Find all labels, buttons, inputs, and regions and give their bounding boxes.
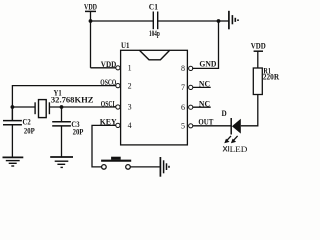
wire VDD to R1 <box>257 51 259 68</box>
LED D <box>222 108 241 135</box>
pin 6 circle <box>189 105 193 109</box>
svg-text:3: 3 <box>128 103 132 112</box>
svg-text:2: 2 <box>128 81 132 90</box>
power VDD right <box>251 40 266 51</box>
svg-text:OUT: OUT <box>198 117 213 127</box>
svg-text:20P: 20P <box>73 127 84 137</box>
LED emission arrow 2 <box>231 136 238 143</box>
LED caption glyph (CJK) <box>223 146 229 152</box>
svg-text:5: 5 <box>181 122 185 131</box>
wire pin6 NC stub <box>193 106 211 108</box>
wire pin7 NC stub <box>193 86 211 88</box>
pin 4 circle <box>116 123 120 127</box>
capacitor C3 20P <box>52 107 84 157</box>
svg-text:D: D <box>222 108 227 118</box>
pin 7 circle <box>189 85 193 89</box>
svg-text:VDD: VDD <box>84 1 97 11</box>
power VDD top-left <box>84 1 97 11</box>
wire stub to top ground <box>219 20 229 22</box>
pin 5 circle <box>189 124 193 128</box>
wire pin1 feed <box>91 67 116 69</box>
wire to crystal left <box>12 106 35 108</box>
wire pin5 OUT to LED <box>193 125 231 127</box>
node junction at top-right <box>217 19 221 23</box>
svg-text:GND: GND <box>199 59 216 69</box>
capacitor C1 104p <box>149 1 160 38</box>
pin 2 circle <box>116 84 120 88</box>
pin 8 circle <box>189 66 193 70</box>
svg-text:220R: 220R <box>263 72 280 82</box>
svg-text:VDD: VDD <box>251 40 266 50</box>
wire pin4 KEY down to button <box>92 125 116 166</box>
pushbutton KEY switch <box>101 157 131 170</box>
wire VDD vertical to pin 1 <box>90 11 92 67</box>
svg-text:U1: U1 <box>121 40 130 50</box>
svg-text:4: 4 <box>128 121 132 130</box>
ground top-right (sideways) <box>229 11 238 30</box>
wire LED anode to R1 <box>241 95 258 126</box>
svg-text:20P: 20P <box>24 126 35 136</box>
svg-text:1: 1 <box>128 64 132 73</box>
svg-text:LED: LED <box>230 144 248 154</box>
wire GND pin8 riser <box>192 21 218 68</box>
crystal Y1 32.768KHZ <box>35 88 94 118</box>
svg-text:104p: 104p <box>149 28 160 38</box>
wire button to ground <box>130 166 159 168</box>
capacitor C2 20P <box>3 107 35 157</box>
svg-text:32.768KHZ: 32.768KHZ <box>51 94 94 104</box>
svg-text:C1: C1 <box>149 1 158 11</box>
svg-text:8: 8 <box>181 64 185 73</box>
LED emission arrow 1 <box>224 136 231 143</box>
wire C1 to ground node <box>158 20 219 22</box>
pin 3 circle <box>116 105 120 109</box>
node junction VDD rail <box>89 19 93 23</box>
ground under C2 <box>3 157 24 166</box>
svg-text:6: 6 <box>181 103 185 112</box>
wire VDD rail to C1 <box>91 20 154 22</box>
resistor R1 220R <box>253 65 279 94</box>
wire pin2 OSCO left <box>12 86 115 121</box>
pin 1 circle <box>116 66 120 70</box>
ground under C3 <box>50 157 73 167</box>
ground bottom (sideways) <box>160 157 169 177</box>
wire pin3 OSCL to crystal right <box>49 106 115 108</box>
svg-text:7: 7 <box>181 83 185 92</box>
node junction crystal-right / C3 <box>60 105 64 109</box>
node junction crystal-left <box>11 105 15 109</box>
op IC U1 body <box>121 40 188 145</box>
